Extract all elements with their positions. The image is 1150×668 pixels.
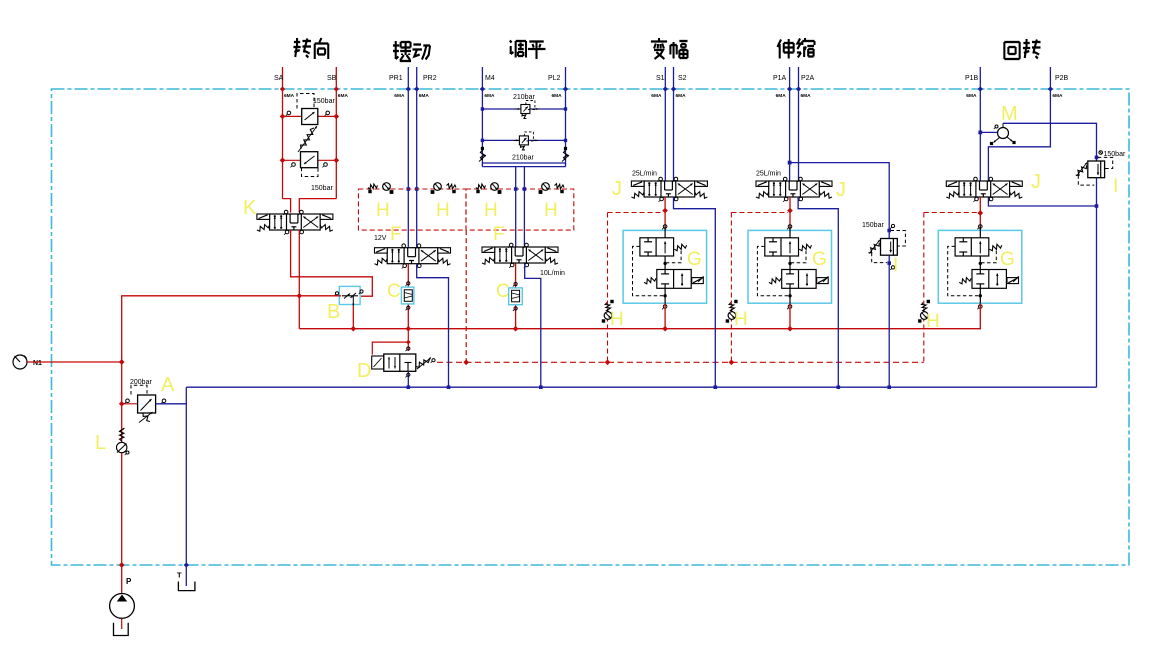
relief valve I1 150bar	[862, 222, 905, 270]
svg-text:P2B: P2B	[1055, 75, 1069, 82]
wire K to B outer	[291, 230, 373, 296]
header steering (zhuan-xiang)	[293, 38, 328, 59]
border frame (dash-dot)	[52, 89, 1130, 565]
bridge bottom rail	[482, 163, 565, 167]
relief valve A 200bar	[122, 379, 187, 423]
wire F1 to C1	[407, 264, 409, 329]
wire I1 to blue bus	[888, 255, 890, 387]
svg-text:I: I	[893, 255, 898, 276]
label A	[161, 374, 175, 396]
steering pilot spring	[298, 126, 317, 152]
wire D to blue bus	[406, 371, 410, 387]
svg-text:D: D	[357, 360, 371, 382]
pilot valve H3	[476, 183, 501, 194]
pilot valve H6	[726, 300, 738, 323]
port PR2	[414, 67, 437, 99]
wire I2 down	[1095, 178, 1099, 388]
wire J2 to G2	[787, 197, 793, 230]
valve D	[357, 354, 435, 382]
svg-text:C: C	[496, 281, 510, 302]
svg-text:G: G	[812, 249, 827, 270]
port P2A	[796, 67, 815, 99]
bridge top 210bar	[481, 94, 568, 119]
svg-text:200bar: 200bar	[130, 379, 152, 386]
label 10L/min	[540, 270, 565, 277]
valve J3	[946, 177, 1022, 202]
wire PL2 rail	[565, 89, 567, 167]
valve K label	[243, 197, 257, 219]
label J1	[612, 178, 622, 200]
svg-text:H: H	[734, 309, 748, 330]
svg-text:J: J	[1031, 171, 1041, 193]
pump P	[110, 565, 135, 629]
wire J2 blue return	[798, 197, 838, 387]
wire SA rail	[283, 89, 291, 213]
wire P1A	[788, 89, 792, 182]
svg-text:P1A: P1A	[773, 75, 787, 82]
pilot dashed left drop 3	[924, 213, 978, 363]
wire S1	[664, 89, 666, 182]
wire G2 to bus	[789, 303, 791, 329]
wire G1 to bus	[664, 303, 666, 329]
svg-text:6MA: 6MA	[284, 93, 295, 99]
port PR1	[389, 67, 411, 99]
pilot valve H4	[539, 183, 564, 194]
svg-text:6MA: 6MA	[801, 93, 812, 99]
label I2	[1113, 176, 1118, 197]
labels H row	[376, 200, 558, 221]
svg-text:L: L	[95, 432, 106, 454]
wire bridge to F2 left	[514, 167, 518, 248]
header telescope (shen-suo)	[777, 38, 814, 59]
shuttle valve M	[980, 103, 1017, 145]
wire J1 to G1	[662, 197, 668, 230]
wire PR2	[415, 89, 419, 248]
svg-text:N1: N1	[33, 360, 42, 367]
svg-text:6MA: 6MA	[484, 93, 495, 99]
label 25L/min (1)	[632, 171, 657, 178]
wire bus to D	[372, 329, 410, 355]
svg-text:J: J	[836, 179, 846, 201]
wire G3 to bus	[979, 303, 981, 329]
steering relief bottom 150bar	[280, 152, 339, 192]
port P1B	[965, 67, 983, 99]
svg-text:M: M	[1001, 103, 1018, 125]
svg-text:H: H	[544, 200, 558, 221]
pilot valve H5	[602, 300, 614, 323]
wire S2	[673, 89, 675, 182]
wire B to red bus	[352, 306, 354, 329]
svg-text:S2: S2	[678, 75, 687, 82]
wire P1A to I1	[790, 163, 890, 239]
svg-text:SA: SA	[274, 75, 284, 82]
svg-text:C: C	[387, 281, 401, 302]
svg-text:J: J	[612, 178, 622, 200]
svg-text:T: T	[177, 571, 182, 580]
wire shuttle to I2	[1003, 123, 1098, 161]
block G3	[938, 225, 1022, 310]
port PL2	[548, 67, 568, 99]
pump tank	[114, 623, 129, 636]
bridge check left	[479, 147, 486, 162]
svg-text:6MA: 6MA	[776, 93, 787, 99]
gauge N1	[13, 355, 122, 369]
valve B	[327, 286, 363, 323]
label G2	[812, 249, 827, 270]
wire J3 to G3	[977, 197, 983, 230]
pilot valve H2	[431, 183, 456, 194]
valve F1	[375, 244, 451, 269]
svg-text:H: H	[484, 200, 498, 221]
block G2	[748, 225, 832, 310]
orifice C1	[387, 281, 414, 310]
port P1A	[773, 67, 792, 99]
wire J1 blue return	[674, 197, 716, 387]
label J2	[836, 179, 846, 201]
port SA	[274, 67, 295, 99]
tank T	[177, 571, 195, 591]
svg-text:P: P	[126, 577, 132, 586]
svg-text:PR1: PR1	[389, 75, 403, 82]
wire F1 blue return	[417, 264, 449, 387]
label H6	[734, 309, 748, 330]
pilot valve H1	[368, 183, 393, 194]
label 25L/min (2)	[756, 171, 781, 178]
label F1	[390, 224, 505, 245]
svg-text:6MA: 6MA	[338, 93, 349, 99]
svg-text:PR2: PR2	[423, 75, 437, 82]
pilot dashed mid drop	[465, 230, 467, 362]
valve J1	[631, 177, 707, 202]
wire F2 to C2	[515, 264, 517, 329]
svg-text:6MA: 6MA	[394, 93, 405, 99]
wire SB rail	[299, 89, 336, 213]
block G1	[623, 225, 707, 310]
svg-text:H: H	[376, 200, 390, 221]
label H5	[610, 309, 624, 330]
wire PR1	[407, 89, 411, 248]
bridge check right	[562, 147, 569, 162]
label G3	[1000, 249, 1015, 270]
wire P1B	[978, 89, 982, 182]
svg-text:210bar: 210bar	[513, 94, 535, 101]
svg-text:F: F	[493, 224, 505, 245]
wire T line	[184, 387, 189, 586]
label I1	[893, 255, 898, 276]
svg-text:P2A: P2A	[801, 75, 815, 82]
header leveling (tiao-ping)	[510, 41, 546, 60]
svg-text:6MA: 6MA	[966, 93, 977, 99]
wire M4 rail	[481, 89, 483, 167]
svg-text:P1B: P1B	[965, 75, 979, 82]
svg-text:G: G	[1000, 249, 1015, 270]
port S2	[671, 67, 687, 99]
bridge bottom 210bar	[481, 132, 568, 162]
wire pump to supply rail	[119, 293, 341, 568]
port SB	[327, 67, 348, 99]
svg-text:10L/min: 10L/min	[540, 270, 565, 277]
svg-text:PL2: PL2	[548, 75, 561, 82]
valve J2	[756, 177, 832, 202]
header luffing (bian-fu)	[651, 38, 688, 59]
svg-text:H: H	[926, 311, 940, 332]
svg-text:H: H	[436, 200, 450, 221]
header slewing (hui-zhuan)	[1004, 39, 1040, 59]
wire P2A	[798, 89, 800, 182]
label J3	[1031, 171, 1041, 193]
svg-text:B: B	[327, 301, 340, 323]
wire J3 return to I2 line	[988, 197, 1096, 206]
svg-text:12V: 12V	[374, 235, 387, 242]
svg-text:A: A	[161, 374, 175, 396]
svg-text:H: H	[610, 309, 624, 330]
svg-text:6MA: 6MA	[419, 93, 430, 99]
svg-text:150bar: 150bar	[313, 98, 335, 105]
label G1	[687, 249, 702, 270]
red pilot dashed bus	[437, 359, 924, 365]
label H7	[926, 311, 940, 332]
svg-text:210bar: 210bar	[512, 155, 534, 162]
svg-text:F: F	[390, 224, 402, 245]
svg-text:25L/min: 25L/min	[632, 171, 657, 178]
steering relief top 150bar	[280, 94, 339, 125]
orifice C2	[496, 281, 522, 311]
svg-text:K: K	[243, 197, 257, 219]
port M4	[480, 67, 495, 99]
svg-text:I: I	[1113, 176, 1118, 197]
blue return bus	[186, 385, 1096, 389]
wire F2 blue return	[525, 264, 541, 388]
wire bridge to F2 right	[523, 167, 527, 248]
header swing (bai-dong)	[393, 41, 430, 61]
label 12V	[374, 235, 387, 242]
port P2B	[1048, 67, 1069, 99]
valve K	[257, 210, 333, 235]
pilot box H swing	[358, 189, 573, 230]
check valve L	[95, 428, 129, 455]
svg-text:6MA: 6MA	[1052, 93, 1063, 99]
svg-text:S1: S1	[656, 75, 665, 82]
pilot valve H7	[918, 300, 930, 323]
pilot dashed left drop 2	[731, 213, 788, 363]
svg-text:150bar: 150bar	[862, 222, 884, 229]
port S1	[651, 67, 668, 99]
svg-text:150bar: 150bar	[311, 185, 333, 192]
wire P2B	[988, 89, 1050, 182]
wire K to supply	[298, 230, 300, 329]
svg-text:6MA: 6MA	[676, 93, 687, 99]
valve F2	[482, 243, 558, 268]
svg-text:6MA: 6MA	[651, 93, 662, 99]
pilot dashed left drop 1	[608, 213, 664, 363]
svg-text:M4: M4	[485, 75, 495, 82]
svg-text:SB: SB	[327, 75, 337, 82]
red supply bus	[299, 326, 981, 332]
relief valve I2 150bar	[1076, 151, 1126, 185]
svg-text:6MA: 6MA	[552, 93, 563, 99]
svg-text:G: G	[687, 249, 702, 270]
svg-text:25L/min: 25L/min	[756, 171, 781, 178]
